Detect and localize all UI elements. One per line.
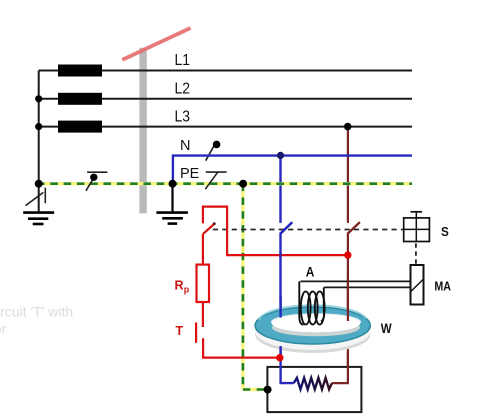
- svg-text:T: T: [176, 324, 184, 338]
- svg-text:tor: tor: [0, 321, 7, 337]
- svg-text:S: S: [441, 224, 449, 239]
- svg-text:PE: PE: [180, 166, 200, 182]
- svg-text:R: R: [175, 278, 184, 292]
- svg-text:circuit 'T' with: circuit 'T' with: [0, 304, 73, 320]
- svg-text:L2: L2: [175, 81, 191, 98]
- svg-text:p: p: [184, 284, 190, 294]
- svg-text:MA: MA: [434, 278, 451, 293]
- svg-text:N: N: [180, 138, 190, 154]
- svg-text:L3: L3: [175, 109, 191, 126]
- svg-text:W: W: [381, 321, 392, 336]
- svg-text:A: A: [306, 264, 315, 279]
- svg-text:L1: L1: [175, 52, 191, 69]
